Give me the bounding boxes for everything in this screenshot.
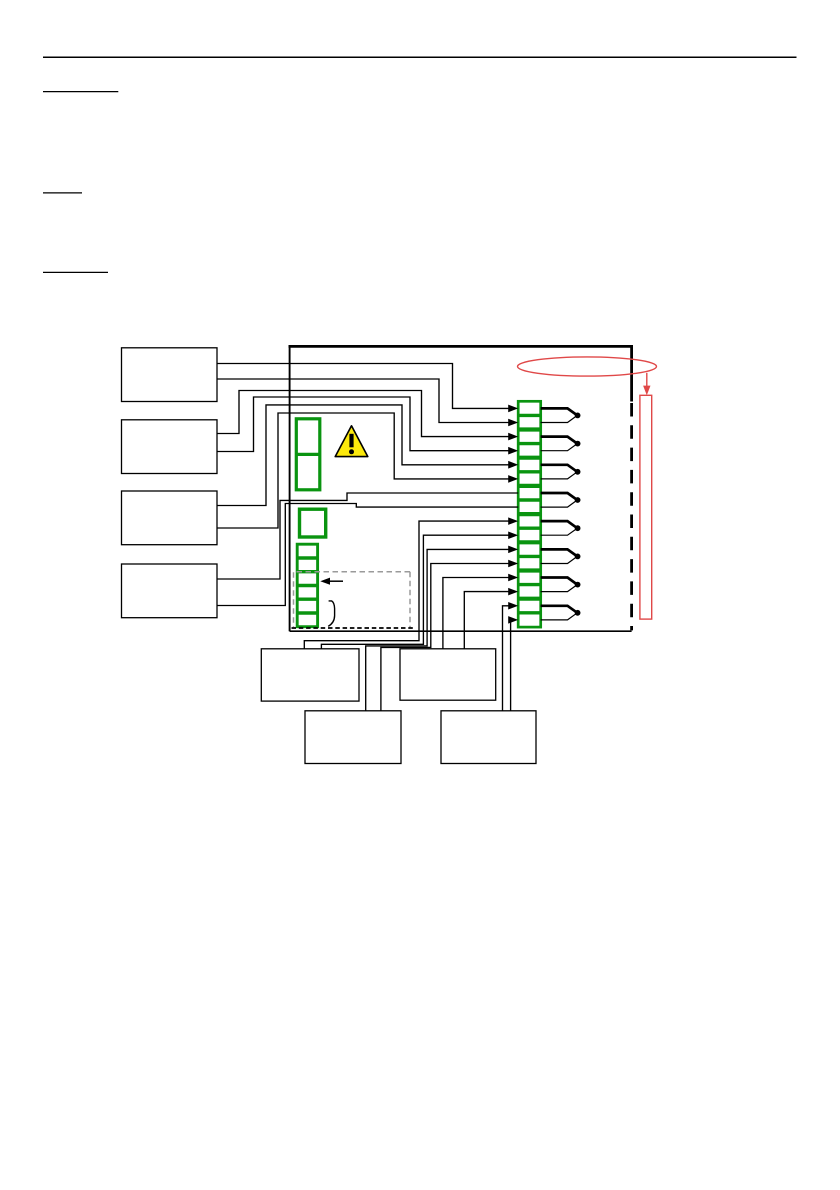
twisted pair lead T6 (541, 549, 581, 563)
pointer arrow into terminal column (329, 580, 344, 582)
connector J1 divider 8 (518, 512, 541, 516)
wire W7 (S4 upper to pin 7) (217, 493, 518, 579)
wire W16 (B8 to pin 16) (508, 616, 518, 711)
wire W13 (B6 to pin 13) (443, 574, 518, 649)
terminal column divider 2 (297, 570, 317, 573)
terminal column divider 4 (297, 598, 317, 601)
connector J1 divider 11 (518, 555, 541, 558)
main unit right edge (dashed part) (630, 403, 633, 630)
wire W3 (S2 upper to pin 3) (217, 391, 518, 441)
terminal column divider 3 (297, 584, 317, 587)
red highlight ellipse (518, 357, 657, 376)
twisted pair lead T5 (541, 521, 581, 535)
connector J1 divider 10 (518, 540, 541, 544)
warning triangle exclamation bar (349, 434, 353, 448)
connector J1 divider 5 (518, 470, 541, 473)
wire W10 (B5 to pin 10) (321, 532, 518, 649)
main unit top edge (289, 345, 632, 348)
wire W11 (B7 to pin 11) (366, 546, 519, 711)
twisted pair lead T3 (541, 465, 581, 479)
main unit bottom edge (290, 630, 632, 632)
terminal column divider 1 (297, 556, 317, 559)
green relay box K1 (300, 509, 326, 537)
connector J1 divider 13 (518, 583, 541, 586)
connector J1 divider 6 (518, 484, 541, 488)
connector J1 divider 1 (518, 414, 541, 417)
wire W5 (S3 upper to pin 5) (217, 405, 518, 506)
load box B6 (400, 649, 496, 700)
red arrowhead (643, 386, 650, 396)
wire W1 (S1 upper to pin 1) (217, 364, 518, 413)
connector J1 divider 2 (518, 427, 541, 431)
brace mark (328, 601, 334, 626)
wire W6 (S3 lower to pin 6) (217, 413, 518, 528)
source box S3 (122, 491, 218, 545)
wire W8 (S4 lower to pin 8) (217, 504, 518, 606)
fuse block F1 divider (296, 453, 320, 456)
load box B5 (261, 649, 359, 701)
red capsule bar (640, 395, 652, 619)
heading underline 3 (43, 271, 108, 273)
wire W15 (B8 to pin 15) (503, 602, 519, 711)
green terminal column X1 (297, 544, 317, 627)
load box B7 (305, 711, 401, 764)
connector J1 divider 12 (518, 568, 541, 572)
load box B8 (441, 711, 536, 764)
source box S1 (122, 348, 218, 402)
connector strip J1 outer (518, 401, 541, 627)
twisted pair lead T1 (541, 408, 581, 422)
wire W4 (S2 lower to pin 4) (217, 397, 518, 455)
green fuse block F1 (296, 419, 320, 490)
main unit right edge (solid part) (630, 345, 633, 402)
connector J1 divider 14 (518, 597, 541, 601)
dashed option area bottom (black) (292, 627, 414, 629)
wire W9 (B5 to pin 9) (304, 517, 518, 648)
page top rule (43, 56, 797, 58)
source box S2 (122, 420, 218, 474)
dashed option area (gray right side) (409, 572, 411, 627)
wire W14 (B6 to pin 14) (464, 588, 518, 649)
wire W2 (S1 lower to pin 2) (217, 379, 518, 426)
twisted pair lead T8 (541, 606, 581, 620)
connector J1 divider 9 (518, 527, 541, 530)
connector J1 divider 7 (518, 498, 541, 501)
heading underline 1 (43, 91, 118, 93)
connector J1 divider 3 (518, 442, 541, 445)
terminal column divider 5 (297, 611, 317, 614)
connector J1 divider 15 (518, 611, 541, 614)
source box S4 (122, 564, 218, 618)
heading underline 2 (43, 192, 82, 194)
connector J1 divider 4 (518, 456, 541, 460)
red arrow line (646, 373, 648, 386)
wire W12 (B7 to pin 12) (381, 560, 518, 711)
main unit left edge (289, 345, 291, 631)
warning triangle exclamation dot (349, 449, 354, 454)
dashed option area (gray sides) (294, 572, 411, 627)
twisted pair lead T4 (541, 493, 581, 507)
twisted pair lead T2 (541, 437, 581, 451)
twisted pair lead T7 (541, 578, 581, 592)
warning triangle (335, 426, 368, 457)
